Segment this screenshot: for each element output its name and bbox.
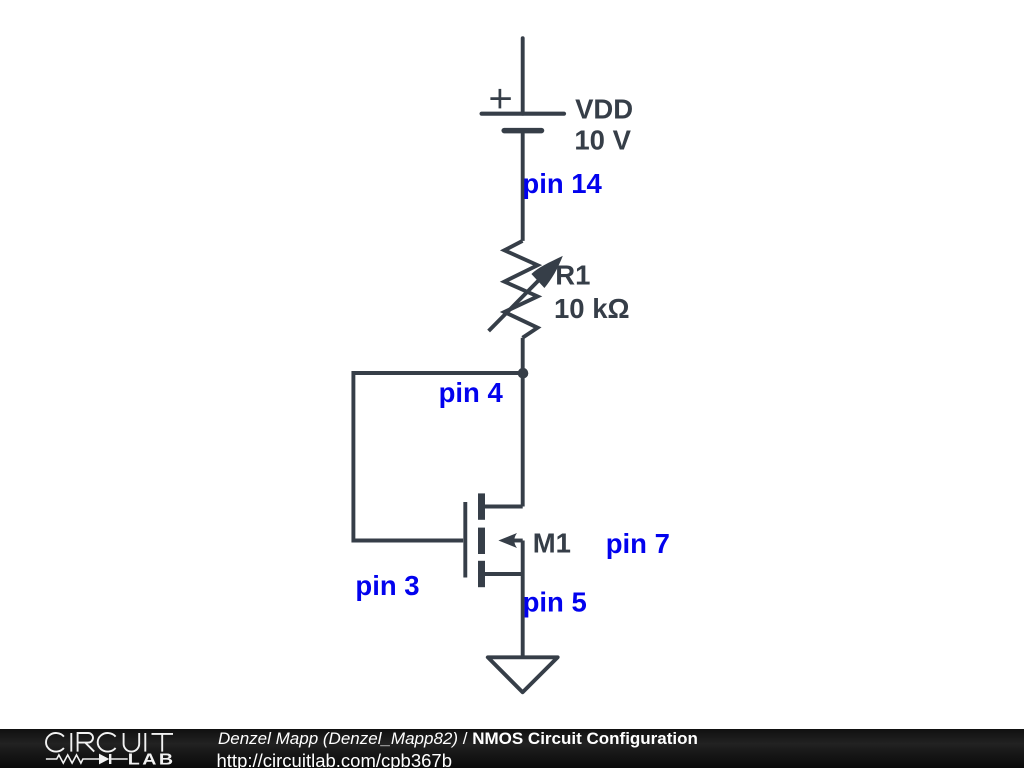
wire node to drain vertical [521, 373, 525, 507]
logo letter T [152, 734, 174, 752]
CircuitLab logo [40, 729, 190, 768]
battery V1 positive plate [482, 112, 564, 116]
svg-text:M1: M1 [533, 528, 571, 559]
svg-text:LAB: LAB [128, 751, 176, 768]
logo diode cathode bar [109, 754, 111, 764]
logo letter U [124, 733, 140, 752]
logo resistor squiggle [46, 755, 99, 763]
transistor M1 channel dashes [478, 493, 485, 587]
resistor R1 zigzag [504, 241, 537, 338]
logo letter R [78, 733, 95, 752]
svg-text:pin 7: pin 7 [606, 528, 670, 559]
logo letter C2 [98, 733, 116, 752]
svg-text:pin 4: pin 4 [439, 377, 504, 408]
resistor R1 wiper arrow shaft [489, 280, 539, 331]
battery V1 plus sign [490, 89, 510, 109]
logo letter I [70, 733, 72, 752]
wire battery top stub [521, 38, 525, 114]
footer url line [217, 751, 453, 768]
logo diode wire [111, 758, 128, 760]
transistor M1 body arrowhead [498, 533, 517, 548]
svg-text:pin 3: pin 3 [355, 570, 419, 601]
svg-text:VDD: VDD [575, 93, 633, 124]
logo letter C [46, 733, 64, 752]
wire source down to ground [521, 541, 525, 658]
wire drain horizontal [485, 505, 523, 509]
wire feedback top horizontal [353, 371, 523, 375]
footer black bar [0, 729, 1024, 768]
svg-text:pin 14: pin 14 [522, 168, 602, 199]
svg-text:10 kΩ: 10 kΩ [554, 293, 630, 324]
svg-text:R1: R1 [555, 259, 590, 290]
transistor M1 gate bar [463, 502, 467, 578]
svg-text:pin 5: pin 5 [523, 586, 587, 617]
resistor R1 wiper arrowhead [531, 256, 562, 288]
logo diode triangle [99, 754, 109, 765]
wire battery to resistor R1 [521, 131, 525, 241]
ground symbol [488, 657, 558, 692]
wire feedback left vertical [351, 371, 355, 543]
node junction dot [518, 368, 529, 379]
wire gate horizontal [353, 539, 463, 543]
svg-text:10 V: 10 V [574, 124, 631, 155]
wire R1 to node [521, 338, 525, 373]
wire source horizontal [485, 572, 523, 576]
footer title line [218, 730, 698, 747]
wire body arrow to source [512, 539, 523, 543]
battery V1 negative plate [504, 128, 541, 134]
logo letter I2 [144, 733, 146, 752]
